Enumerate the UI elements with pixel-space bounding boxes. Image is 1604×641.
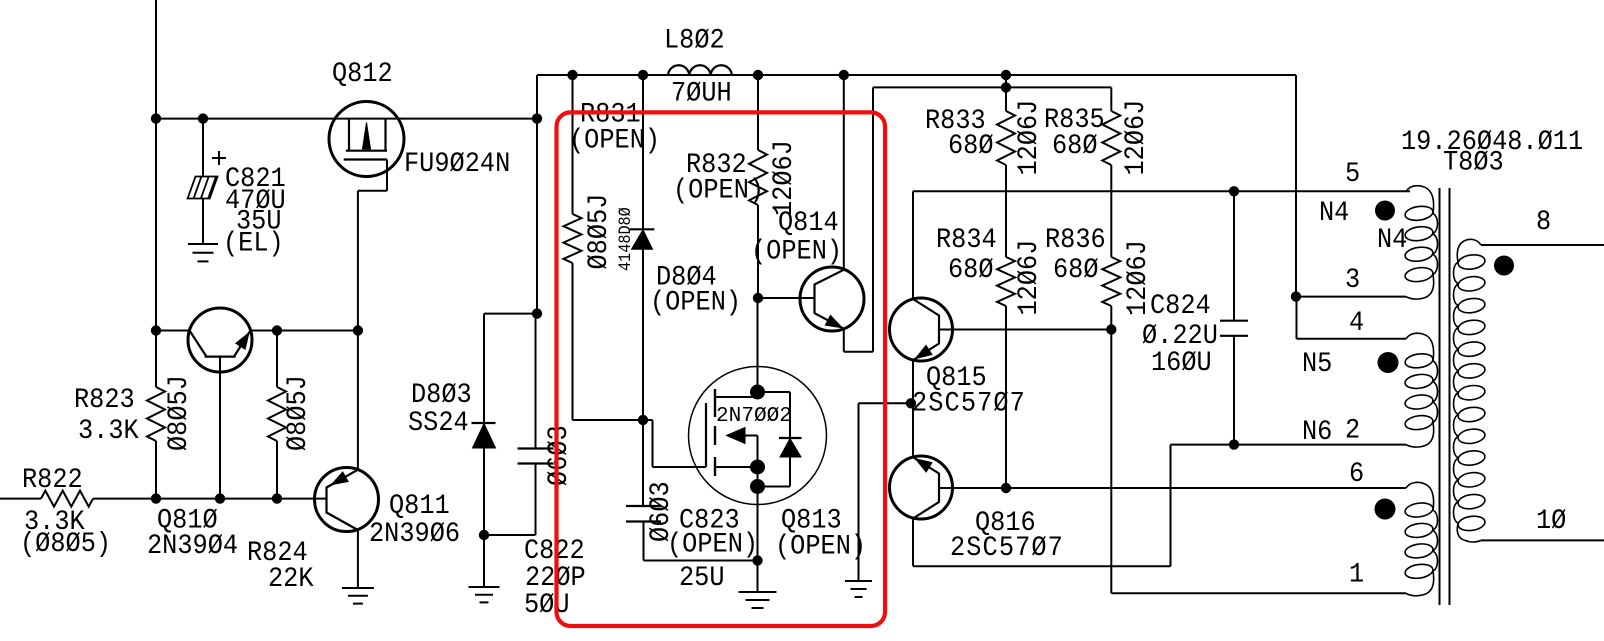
svg-text:8: 8 (1536, 206, 1551, 237)
svg-text:3.3K: 3.3K (78, 415, 139, 446)
svg-text:68Ø: 68Ø (948, 254, 994, 285)
svg-text:FU9Ø24N: FU9Ø24N (404, 148, 510, 179)
svg-text:16ØU: 16ØU (1151, 347, 1212, 378)
svg-text:12Ø6J: 12Ø6J (768, 140, 799, 216)
svg-text:R834: R834 (936, 224, 997, 255)
svg-text:2N7ØØ2: 2N7ØØ2 (716, 404, 792, 428)
svg-text:2: 2 (1345, 415, 1360, 446)
svg-text:12Ø6J: 12Ø6J (1122, 240, 1153, 316)
svg-text:D8Ø3: D8Ø3 (411, 379, 472, 410)
svg-text:(OPEN): (OPEN) (751, 236, 842, 267)
svg-text:5: 5 (1345, 158, 1360, 189)
svg-text:Ø6Ø3: Ø6Ø3 (645, 481, 676, 542)
svg-text:(OPEN): (OPEN) (667, 529, 758, 560)
svg-text:Q812: Q812 (332, 58, 393, 89)
svg-text:SS24: SS24 (408, 407, 469, 438)
svg-text:7ØUH: 7ØUH (671, 78, 732, 109)
svg-text:N4: N4 (1377, 224, 1407, 255)
svg-text:N4: N4 (1319, 197, 1349, 228)
svg-text:6: 6 (1349, 458, 1364, 489)
svg-text:Ø8Ø5J: Ø8Ø5J (163, 375, 194, 451)
svg-text:Ø8Ø5J: Ø8Ø5J (282, 375, 313, 451)
svg-text:(OPEN): (OPEN) (569, 125, 660, 156)
svg-text:68Ø: 68Ø (1053, 254, 1099, 285)
svg-text:22K: 22K (268, 563, 314, 594)
svg-text:(OPEN): (OPEN) (775, 531, 866, 562)
svg-text:N5: N5 (1302, 348, 1332, 379)
svg-text:(OPEN): (OPEN) (673, 175, 764, 206)
svg-text:3: 3 (1345, 264, 1360, 295)
svg-text:Ø6Ø3: Ø6Ø3 (543, 425, 574, 486)
svg-text:4148D8Ø: 4148D8Ø (615, 207, 635, 271)
svg-text:1Ø: 1Ø (1536, 505, 1567, 536)
svg-text:C824: C824 (1150, 290, 1211, 321)
svg-text:12Ø6J: 12Ø6J (1013, 100, 1044, 176)
svg-text:(OPEN): (OPEN) (650, 287, 741, 318)
svg-text:68Ø: 68Ø (1052, 130, 1098, 161)
svg-text:2N39Ø4: 2N39Ø4 (147, 530, 238, 561)
svg-text:N6: N6 (1302, 416, 1332, 447)
svg-text:Ø8Ø5J: Ø8Ø5J (583, 194, 614, 270)
svg-text:5ØU: 5ØU (524, 589, 570, 620)
svg-text:R823: R823 (74, 384, 135, 415)
svg-text:L8Ø2: L8Ø2 (664, 25, 725, 56)
svg-text:1: 1 (1349, 559, 1364, 590)
svg-text:25U: 25U (679, 562, 725, 593)
svg-text:R822: R822 (22, 464, 83, 495)
svg-text:2N39Ø6: 2N39Ø6 (369, 518, 460, 549)
svg-text:(Ø8Ø5): (Ø8Ø5) (20, 528, 111, 559)
svg-text:2SC57Ø7: 2SC57Ø7 (912, 388, 1026, 419)
svg-text:R836: R836 (1045, 224, 1106, 255)
svg-text:68Ø: 68Ø (948, 130, 994, 161)
svg-text:12Ø6J: 12Ø6J (1120, 100, 1151, 176)
svg-text:Q811: Q811 (389, 490, 450, 521)
svg-text:(EL): (EL) (223, 228, 284, 259)
svg-text:2SC57Ø7: 2SC57Ø7 (950, 532, 1064, 563)
svg-text:T8Ø3: T8Ø3 (1443, 147, 1504, 178)
svg-text:4: 4 (1349, 307, 1364, 338)
svg-text:12Ø6J: 12Ø6J (1013, 240, 1044, 316)
